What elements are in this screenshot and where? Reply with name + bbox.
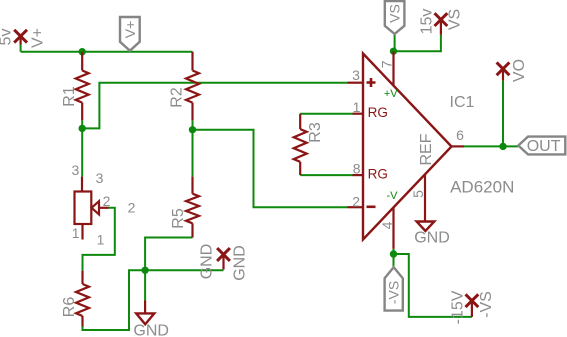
svg-text:15v: 15v — [419, 9, 436, 35]
svg-text:2: 2 — [352, 193, 360, 209]
svg-text:4: 4 — [379, 221, 395, 229]
svg-text:AD620N: AD620N — [450, 178, 514, 197]
svg-text:GND: GND — [133, 323, 169, 337]
svg-text:5v: 5v — [0, 29, 15, 46]
svg-text:GND: GND — [414, 230, 450, 247]
svg-text:1: 1 — [353, 99, 361, 115]
svg-text:OUT: OUT — [527, 138, 561, 155]
svg-text:VS: VS — [387, 4, 403, 23]
svg-text:GND: GND — [198, 244, 215, 280]
svg-text:8: 8 — [353, 161, 361, 177]
svg-text:3: 3 — [72, 162, 80, 178]
svg-text:5: 5 — [410, 190, 426, 198]
svg-text:1: 1 — [72, 225, 80, 241]
svg-text:-VS: -VS — [386, 281, 402, 304]
svg-text:6: 6 — [456, 127, 464, 143]
svg-text:R2: R2 — [169, 87, 186, 108]
svg-text:2: 2 — [103, 193, 111, 209]
svg-text:R1: R1 — [61, 86, 78, 107]
svg-text:GND: GND — [232, 245, 249, 281]
svg-text:REF: REF — [418, 133, 435, 165]
svg-text:7: 7 — [378, 60, 394, 68]
svg-text:3: 3 — [96, 170, 104, 186]
svg-text:-VS: -VS — [478, 291, 495, 318]
svg-text:-15V: -15V — [450, 290, 467, 324]
svg-text:IC1: IC1 — [450, 94, 475, 111]
svg-text:RG: RG — [368, 105, 388, 120]
svg-text:VS: VS — [447, 9, 464, 30]
svg-text:1: 1 — [97, 232, 105, 248]
svg-text:R5: R5 — [170, 208, 187, 229]
svg-text:RG: RG — [368, 166, 388, 181]
svg-text:V+: V+ — [30, 28, 47, 48]
svg-text:2: 2 — [128, 200, 136, 216]
svg-text:R3: R3 — [307, 122, 324, 143]
svg-text:3: 3 — [352, 67, 360, 83]
svg-text:R6: R6 — [61, 297, 78, 318]
svg-text:+V: +V — [384, 88, 398, 100]
svg-text:V+: V+ — [122, 21, 138, 39]
svg-text:VO: VO — [511, 59, 528, 82]
svg-text:-V: -V — [387, 190, 399, 202]
